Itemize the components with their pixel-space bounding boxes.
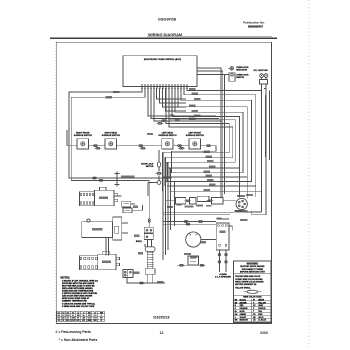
svg-text:PINK: PINK [258,314,263,316]
svg-text:NOTES:: NOTES: [61,276,71,279]
svg-text:PK: PK [253,314,256,316]
svg-text:YELLOW: YELLOW [258,302,266,304]
svg-text:LT. BLUE: LT. BLUE [258,320,267,322]
svg-text:SECOND (GRN/WHT IS): SECOND (GRN/WHT IS) [235,284,257,286]
svg-text:SURFACE SWITCH: SURFACE SWITCH [158,134,177,137]
svg-text:SAME SIZE AND TEMPERATURE: SAME SIZE AND TEMPERATURE [62,290,94,293]
svg-text:WIRE COLOR CODE: WIRE COLOR CODE [243,297,262,299]
svg-text:SURFACE SWITCH: SURFACE SWITCH [102,134,121,137]
svg-text:SURFACE SWITCH: SURFACE SWITCH [74,134,93,137]
svg-text:GRAY: GRAY [258,304,264,307]
svg-text:YELLOW SPIRAL: YELLOW SPIRAL [235,287,251,290]
svg-text:AMBIENT TEMPERATURE: AMBIENT TEMPERATURE [62,300,87,303]
svg-text:INDICATOR: INDICATOR [236,68,247,71]
svg-text:WARNING: WARNING [247,262,259,265]
svg-text:BROWN: BROWN [240,302,248,304]
svg-text:MOTOR: MOTOR [146,166,154,168]
svg-text:V: V [235,317,237,319]
svg-text:TRACED WIRE ARE COLOR: TRACED WIRE ARE COLOR [235,275,261,278]
svg-text:BROIL: BROIL [136,241,143,243]
svg-text:MR: MR [235,320,238,322]
svg-text:# = Fast-moving Parts: # = Fast-moving Parts [56,330,91,334]
svg-text:GY: GY [253,305,256,307]
svg-text:GREEN: GREEN [240,314,247,316]
svg-text:WHITE: WHITE [258,299,265,301]
svg-text:MAROON: MAROON [240,319,249,322]
svg-text:GN: GN [235,314,238,316]
svg-text:F.G. LIGHT SW: F.G. LIGHT SW [254,70,268,72]
svg-text:BEFORE SERVICING UNIT: BEFORE SERVICING UNIT [240,271,266,273]
svg-text:BL: BL [235,311,238,313]
svg-text:0203: 0203 [260,331,268,335]
svg-text:ELECTRIC SHOCK HAZARD: ELECTRIC SHOCK HAZARD [240,265,265,268]
svg-text:SURFACE SWITCH: SURFACE SWITCH [186,134,205,137]
svg-text:GSG3PZB: GSG3PZB [158,17,176,21]
svg-text:R: R [235,305,237,307]
svg-text:LB: LB [253,320,256,322]
svg-text:MUST BE REPLACED IT MUST BE: MUST BE REPLACED IT MUST BE [62,284,95,287]
svg-text:1 BRAKE: IF ANY ORIGINAL WIR: 1 BRAKE: IF ANY ORIGINAL WIRE AS [62,279,98,282]
svg-text:SWITCH: SWITCH [236,77,244,79]
svg-text:GOLD: GOLD [258,317,264,319]
svg-text:P: P [253,308,255,310]
svg-text:BK: BK [235,299,238,301]
svg-text:* = Non-Illustrated Parts: * = Non-Illustrated Parts [59,338,98,342]
svg-text:BLACK: BLACK [240,298,247,301]
svg-text:GD: GD [253,317,256,319]
svg-text:BR: BR [235,302,238,304]
svg-text:AND DOOR SWITCHES SHOWN: AND DOOR SWITCHES SHOWN [62,295,93,298]
svg-text:W: W [253,299,255,301]
svg-text:4 WIRE GAGE AND COLOR CODE: 4 WIRE GAGE AND COLOR CODE [62,305,95,308]
svg-text:PURPLE: PURPLE [258,308,266,310]
svg-text:VIOLET: VIOLET [240,317,247,319]
svg-text:5995385407: 5995385407 [248,25,263,29]
svg-text:T: T [253,311,255,313]
svg-text:BLUE: BLUE [240,311,246,313]
svg-text:Publication No.: Publication No. [243,20,265,24]
svg-text:ELECTRONIC OVEN CONTROL (EOC): ELECTRONIC OVEN CONTROL (EOC) [144,59,182,61]
svg-text:RED: RED [240,305,244,307]
svg-text:316295218: 316295218 [153,316,170,320]
svg-text:Y: Y [253,302,255,304]
svg-text:WIRING DIAGRAM: WIRING DIAGRAM [148,32,182,37]
svg-text:13: 13 [160,331,164,335]
svg-text:O: O [235,308,237,310]
svg-text:ORANGE: ORANGE [240,307,249,310]
svg-text:& L.P. SPEAKER: & L.P. SPEAKER [215,276,231,279]
